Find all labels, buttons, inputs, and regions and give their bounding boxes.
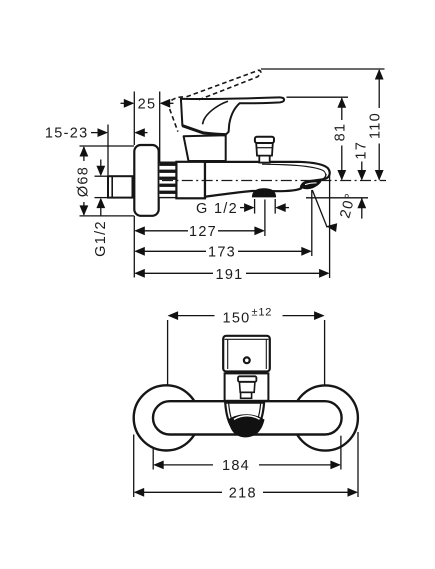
svg-text:Ø68: Ø68 bbox=[76, 166, 92, 197]
reference line 110 top (raised lever tip level) bbox=[261, 68, 385, 70]
dimension 17 bbox=[361, 162, 363, 219]
dimension Ø68 (escutcheon diameter) bbox=[80, 146, 135, 216]
body capsule top edge visible through spout bbox=[226, 400, 264, 402]
spout top inner edge (double line) bbox=[262, 164, 326, 177]
dimension G1/2 (wall connection, left) bbox=[95, 160, 109, 216]
lever handle raised (dashed) bbox=[168, 70, 261, 131]
svg-text:81: 81 bbox=[332, 123, 348, 142]
dimension 127 bbox=[134, 200, 265, 278]
right escutcheon (front view) bbox=[293, 385, 358, 450]
diverter knob (side view) bbox=[255, 137, 274, 163]
reference line spout outlet bottom bbox=[306, 197, 368, 199]
reference line 81 top (lever top level) bbox=[287, 96, 349, 98]
svg-text:17: 17 bbox=[353, 141, 369, 160]
shower hose outlet dome (black) bbox=[252, 188, 276, 197]
svg-text:110: 110 bbox=[368, 112, 384, 139]
lever handle (solid, rest position) bbox=[181, 97, 284, 134]
nose inner edge bbox=[322, 174, 326, 180]
dimension 184 bbox=[153, 436, 341, 470]
escutcheon disc Ø68 (side view) bbox=[134, 145, 158, 216]
dimension 15-23 (wall depth range) bbox=[91, 125, 148, 176]
left escutcheon (front view) bbox=[134, 385, 199, 450]
svg-text:G1/2: G1/2 bbox=[93, 220, 109, 257]
union nut bbox=[176, 162, 205, 199]
svg-text:191: 191 bbox=[215, 267, 243, 283]
svg-text:G 1/2: G 1/2 bbox=[196, 201, 238, 217]
svg-text:25: 25 bbox=[138, 96, 157, 112]
spout lower block (front view) bbox=[225, 373, 269, 400]
svg-text:218: 218 bbox=[229, 485, 257, 501]
svg-text:±12: ±12 bbox=[252, 307, 273, 319]
dimension 25 (escutcheon depth) bbox=[121, 92, 174, 162]
dimension 150±12 bbox=[168, 316, 325, 388]
svg-text:173: 173 bbox=[208, 244, 236, 260]
dimension 81 bbox=[341, 98, 343, 179]
lever style curve bbox=[203, 101, 228, 124]
aerator crescent (front view, black) bbox=[228, 414, 264, 437]
lever underside shadow line bbox=[182, 126, 225, 135]
dimension G1/2 (shower hose outlet) bbox=[240, 199, 289, 214]
svg-text:127: 127 bbox=[189, 224, 217, 240]
aerator lens (black) bbox=[301, 179, 322, 189]
svg-text:184: 184 bbox=[222, 458, 250, 474]
spout set screw dot bbox=[244, 357, 250, 363]
svg-text:150: 150 bbox=[222, 310, 250, 326]
diverter knob (front view) bbox=[238, 376, 256, 398]
dimension 191 bbox=[136, 172, 330, 279]
center line (pipe axis, top view) bbox=[162, 180, 386, 182]
svg-text:15-23: 15-23 bbox=[45, 126, 89, 142]
faucet body and spout outline (side view) bbox=[205, 162, 330, 197]
dimension 110 bbox=[378, 70, 380, 180]
cartridge cover bbox=[184, 135, 226, 161]
dimension 173 bbox=[136, 190, 312, 256]
dimension 20° (spout outlet angle) bbox=[312, 190, 327, 228]
wall nipple G1/2 (top view) bbox=[108, 176, 133, 197]
body capsule (front view) bbox=[153, 401, 342, 434]
spout upper block (front view) bbox=[223, 336, 270, 372]
threaded S-union hatch bbox=[159, 162, 177, 197]
spout outlet U-shape (front view) bbox=[225, 403, 264, 436]
dimension 218 bbox=[134, 432, 358, 497]
